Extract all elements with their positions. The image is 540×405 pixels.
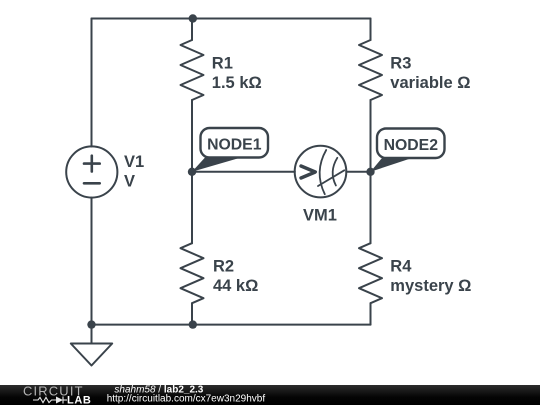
wire R3 to NODE2: [370, 100, 372, 172]
node NODE2 label: [371, 129, 445, 172]
resistor R4: [359, 243, 382, 303]
svg-text:LAB: LAB: [67, 394, 91, 405]
voltmeter VM1: [295, 146, 347, 198]
junction NODE2: [366, 168, 374, 176]
resistor R3: [359, 40, 382, 100]
svg-text:V: V: [124, 173, 135, 191]
svg-text:R1: R1: [212, 55, 233, 73]
wire bottom rail: [92, 324, 371, 326]
svg-text:NODE1: NODE1: [207, 137, 262, 154]
svg-text:R2: R2: [213, 258, 234, 276]
junction top R1 tap: [189, 14, 197, 22]
svg-text:44 kΩ: 44 kΩ: [213, 277, 258, 295]
wire R1 top lead: [191, 19, 193, 41]
svg-text:mystery Ω: mystery Ω: [390, 277, 471, 295]
wire R3 top lead: [370, 19, 372, 41]
logo resistor-diode squiggle: [33, 396, 67, 403]
junction bottom R2 tap: [189, 320, 197, 328]
footer bar: [0, 385, 540, 405]
junction bottom left: [87, 320, 95, 328]
wire R1 to NODE1: [191, 100, 193, 172]
svg-text:1.5 kΩ: 1.5 kΩ: [212, 74, 262, 92]
svg-text:NODE2: NODE2: [384, 137, 439, 154]
wire NODE1 to R2: [191, 172, 193, 243]
wire NODE1 to VM1: [192, 171, 295, 173]
voltage source V1: [66, 146, 117, 197]
wire left rail lower: [91, 198, 93, 325]
wire R2 bottom lead: [191, 303, 193, 324]
junction NODE1: [188, 168, 196, 176]
wire NODE2 to R4: [370, 172, 372, 243]
svg-text:R4: R4: [390, 258, 412, 276]
wire VM1 to NODE2: [346, 171, 370, 173]
resistor R1: [181, 40, 204, 100]
wire left rail upper: [91, 19, 93, 147]
ground: [71, 325, 112, 366]
wire R4 bottom lead: [370, 303, 372, 324]
svg-text:variable Ω: variable Ω: [390, 74, 470, 92]
svg-text:http://circuitlab.com/cx7ew3n2: http://circuitlab.com/cx7ew3n29hvbf: [107, 393, 266, 404]
svg-text:V1: V1: [124, 153, 144, 171]
resistor R2: [181, 243, 204, 303]
svg-text:R3: R3: [390, 55, 411, 73]
svg-text:VM1: VM1: [303, 207, 337, 225]
node NODE1 label: [192, 128, 268, 172]
wire top rail: [92, 18, 371, 20]
